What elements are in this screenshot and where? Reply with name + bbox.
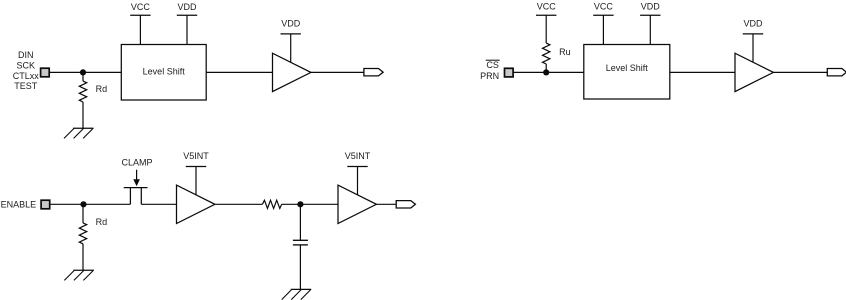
svg-text:TEST: TEST	[14, 81, 38, 91]
svg-text:DIN: DIN	[18, 50, 34, 60]
svg-text:Level Shift: Level Shift	[606, 63, 649, 73]
svg-text:Rd: Rd	[96, 84, 108, 94]
svg-text:VDD: VDD	[177, 2, 197, 12]
svg-text:Ru: Ru	[559, 47, 571, 57]
svg-text:V5INT: V5INT	[183, 151, 209, 161]
svg-text:CLAMP: CLAMP	[121, 158, 152, 168]
svg-text:VDD: VDD	[743, 19, 763, 29]
svg-text:V5INT: V5INT	[345, 151, 371, 161]
svg-text:CS: CS	[486, 60, 499, 70]
svg-text:VCC: VCC	[537, 2, 557, 12]
svg-text:VCC: VCC	[131, 2, 151, 12]
svg-text:SCK: SCK	[17, 61, 36, 71]
svg-text:VDD: VDD	[641, 2, 661, 12]
svg-text:ENABLE: ENABLE	[1, 199, 37, 209]
svg-text:VDD: VDD	[281, 19, 301, 29]
svg-text:Level Shift: Level Shift	[143, 66, 186, 76]
svg-text:PRN: PRN	[480, 71, 499, 81]
svg-text:VCC: VCC	[594, 2, 614, 12]
svg-text:Rd: Rd	[96, 217, 108, 227]
svg-text:CTLxx: CTLxx	[13, 71, 40, 81]
